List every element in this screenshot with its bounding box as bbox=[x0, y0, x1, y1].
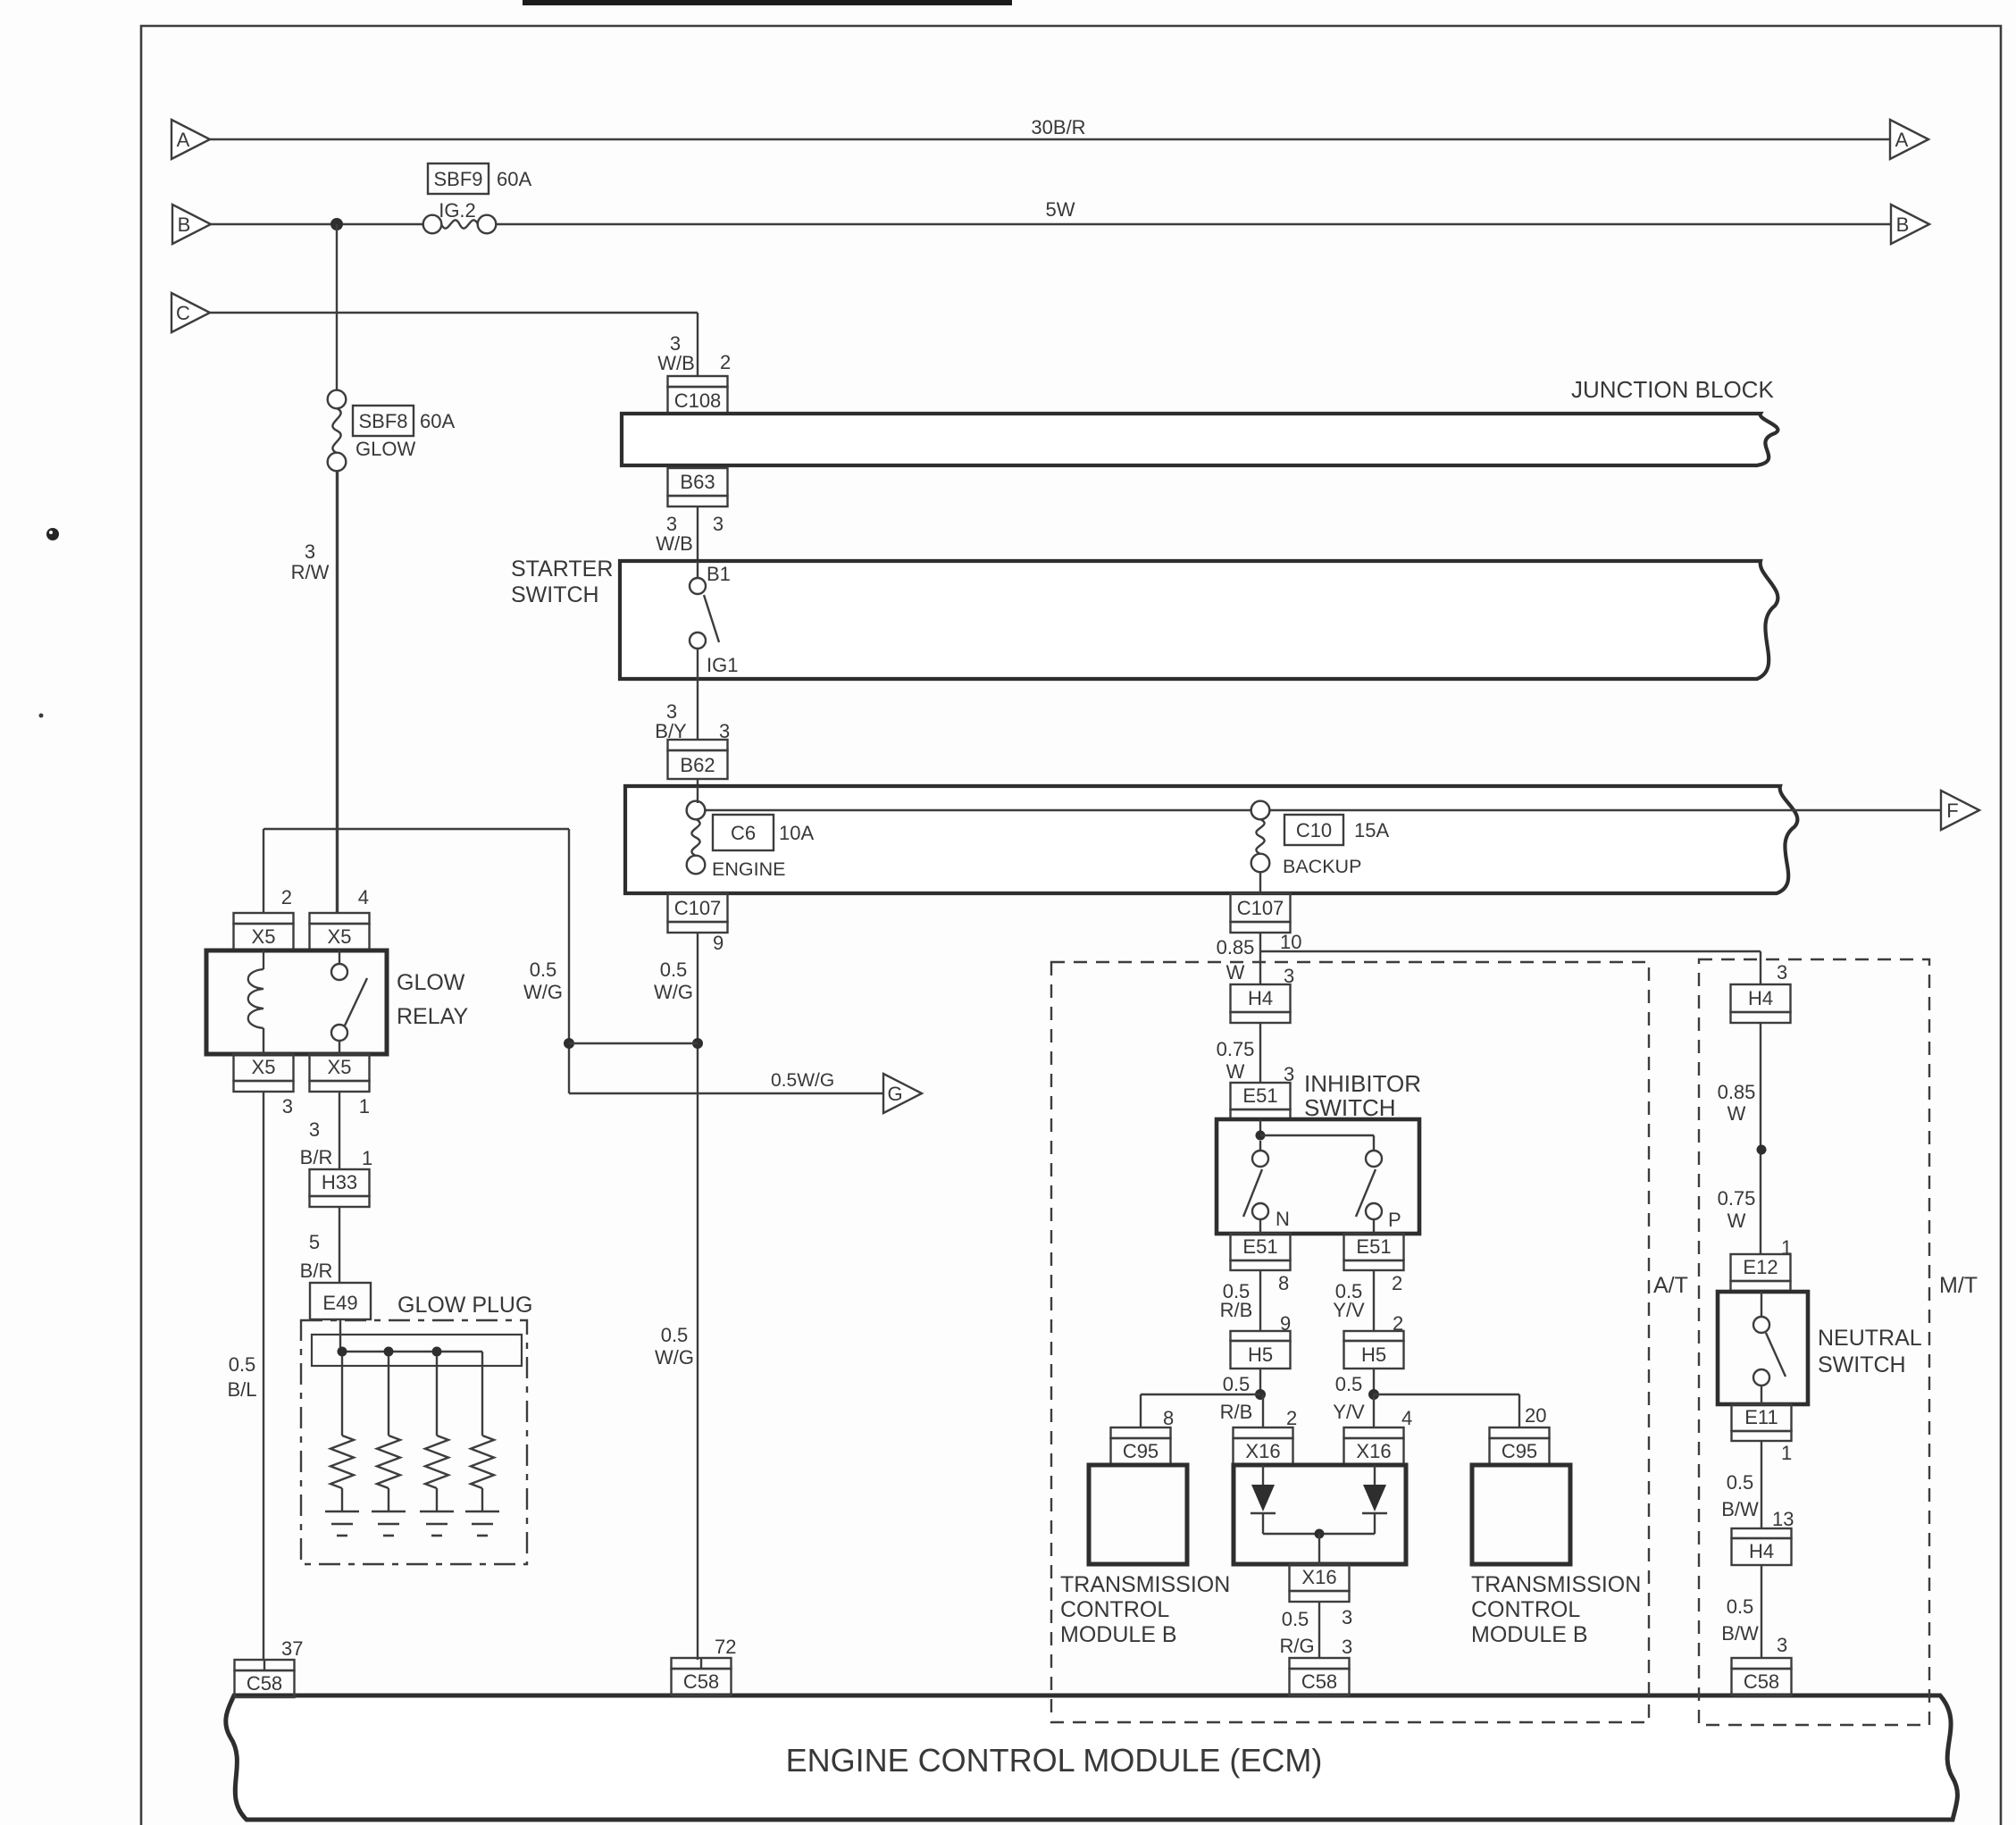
svg-text:TRANSMISSION: TRANSMISSION bbox=[1471, 1572, 1641, 1597]
svg-text:H33: H33 bbox=[322, 1171, 357, 1193]
svg-text:C6: C6 bbox=[731, 822, 756, 844]
svg-text:C: C bbox=[176, 302, 190, 324]
svg-text:E12: E12 bbox=[1743, 1256, 1778, 1278]
svg-text:A: A bbox=[177, 129, 190, 151]
svg-text:3: 3 bbox=[1342, 1636, 1352, 1658]
svg-text:B1: B1 bbox=[707, 563, 731, 585]
svg-text:ENGINE: ENGINE bbox=[712, 858, 785, 880]
svg-text:4: 4 bbox=[1401, 1407, 1412, 1429]
svg-text:5: 5 bbox=[309, 1231, 320, 1253]
svg-text:3: 3 bbox=[1342, 1606, 1352, 1628]
svg-text:W: W bbox=[1226, 1060, 1245, 1083]
svg-text:5W: 5W bbox=[1046, 198, 1075, 221]
svg-text:M/T: M/T bbox=[1939, 1273, 1978, 1298]
svg-text:60A: 60A bbox=[420, 410, 455, 432]
svg-text:X16: X16 bbox=[1356, 1440, 1391, 1462]
svg-text:13: 13 bbox=[1772, 1508, 1794, 1530]
svg-text:IG1: IG1 bbox=[707, 654, 738, 676]
svg-text:3: 3 bbox=[713, 513, 724, 535]
svg-text:X5: X5 bbox=[252, 1056, 276, 1078]
svg-text:X16: X16 bbox=[1245, 1440, 1280, 1462]
svg-text:H4: H4 bbox=[1749, 1540, 1774, 1562]
svg-text:3: 3 bbox=[1777, 1634, 1787, 1656]
svg-text:E51: E51 bbox=[1242, 1235, 1277, 1258]
svg-text:H5: H5 bbox=[1248, 1344, 1273, 1366]
svg-text:SWITCH: SWITCH bbox=[1304, 1094, 1396, 1121]
svg-text:C95: C95 bbox=[1123, 1440, 1159, 1462]
svg-text:0.5: 0.5 bbox=[1223, 1373, 1251, 1395]
svg-text:1: 1 bbox=[362, 1147, 372, 1169]
svg-text:C108: C108 bbox=[674, 389, 722, 412]
svg-text:Y/V: Y/V bbox=[1333, 1401, 1365, 1423]
svg-text:E51: E51 bbox=[1356, 1235, 1391, 1258]
svg-text:W/G: W/G bbox=[655, 1346, 694, 1369]
svg-text:R/W: R/W bbox=[291, 561, 330, 583]
svg-text:SWITCH: SWITCH bbox=[1818, 1352, 1906, 1377]
svg-text:P: P bbox=[1388, 1209, 1401, 1231]
svg-text:0.5: 0.5 bbox=[660, 959, 688, 981]
svg-text:SBF9: SBF9 bbox=[433, 168, 482, 190]
svg-text:X5: X5 bbox=[252, 925, 276, 948]
svg-text:B/R: B/R bbox=[300, 1146, 333, 1168]
svg-text:X5: X5 bbox=[328, 925, 352, 948]
svg-text:1: 1 bbox=[359, 1095, 370, 1118]
svg-text:STARTER: STARTER bbox=[511, 557, 613, 582]
svg-text:B: B bbox=[1896, 213, 1910, 236]
svg-text:B/R: B/R bbox=[300, 1260, 333, 1282]
svg-text:ENGINE CONTROL MODULE (ECM): ENGINE CONTROL MODULE (ECM) bbox=[786, 1742, 1323, 1779]
svg-text:3: 3 bbox=[282, 1095, 293, 1118]
svg-text:0.5: 0.5 bbox=[1727, 1471, 1754, 1494]
svg-text:3: 3 bbox=[305, 540, 315, 563]
svg-text:0.5W/G: 0.5W/G bbox=[771, 1070, 834, 1091]
svg-text:0.5: 0.5 bbox=[530, 959, 557, 981]
svg-text:B63: B63 bbox=[680, 471, 715, 493]
svg-text:JUNCTION BLOCK: JUNCTION BLOCK bbox=[1571, 376, 1774, 403]
svg-text:MODULE B: MODULE B bbox=[1471, 1622, 1588, 1647]
svg-text:E11: E11 bbox=[1744, 1406, 1778, 1428]
svg-text:W/B: W/B bbox=[657, 352, 695, 374]
svg-text:MODULE B: MODULE B bbox=[1060, 1622, 1177, 1647]
svg-text:0.5: 0.5 bbox=[1335, 1373, 1363, 1395]
svg-text:W/B: W/B bbox=[656, 532, 693, 555]
svg-text:C58: C58 bbox=[1301, 1670, 1337, 1693]
svg-text:G: G bbox=[887, 1083, 902, 1105]
svg-text:RELAY: RELAY bbox=[397, 1004, 468, 1029]
svg-text:NEUTRAL: NEUTRAL bbox=[1818, 1326, 1922, 1351]
svg-text:B62: B62 bbox=[680, 754, 715, 776]
svg-text:A/T: A/T bbox=[1653, 1273, 1688, 1298]
svg-text:37: 37 bbox=[281, 1637, 303, 1660]
svg-text:0.5: 0.5 bbox=[229, 1353, 256, 1376]
svg-text:Y/V: Y/V bbox=[1333, 1299, 1365, 1321]
svg-text:9: 9 bbox=[713, 932, 724, 954]
svg-text:C58: C58 bbox=[1744, 1670, 1779, 1693]
svg-text:W: W bbox=[1727, 1210, 1746, 1232]
svg-text:B/W: B/W bbox=[1721, 1498, 1759, 1520]
svg-text:3: 3 bbox=[1777, 961, 1787, 984]
svg-text:X5: X5 bbox=[328, 1056, 352, 1078]
svg-text:2: 2 bbox=[1392, 1272, 1402, 1294]
svg-text:N: N bbox=[1276, 1208, 1290, 1230]
svg-text:0.75: 0.75 bbox=[1217, 1038, 1255, 1060]
svg-text:30B/R: 30B/R bbox=[1031, 116, 1085, 138]
svg-text:C107: C107 bbox=[1237, 897, 1284, 919]
svg-text:CONTROL: CONTROL bbox=[1471, 1597, 1580, 1622]
svg-text:2: 2 bbox=[1286, 1407, 1297, 1429]
svg-text:E51: E51 bbox=[1242, 1084, 1277, 1107]
svg-text:A: A bbox=[1895, 129, 1909, 151]
svg-text:B/W: B/W bbox=[1721, 1622, 1759, 1645]
svg-text:R/B: R/B bbox=[1220, 1401, 1253, 1423]
svg-text:C107: C107 bbox=[674, 897, 722, 919]
svg-text:H5: H5 bbox=[1361, 1344, 1386, 1366]
svg-text:W: W bbox=[1226, 961, 1245, 984]
svg-text:10A: 10A bbox=[779, 822, 814, 844]
svg-text:H4: H4 bbox=[1248, 987, 1273, 1009]
svg-text:SBF8: SBF8 bbox=[358, 410, 407, 432]
svg-text:8: 8 bbox=[1278, 1272, 1289, 1294]
svg-text:3: 3 bbox=[309, 1118, 320, 1141]
svg-text:0.85: 0.85 bbox=[1718, 1081, 1756, 1103]
svg-text:E49: E49 bbox=[322, 1292, 357, 1314]
svg-text:2: 2 bbox=[720, 351, 731, 373]
svg-text:4: 4 bbox=[358, 886, 369, 908]
svg-text:TRANSMISSION: TRANSMISSION bbox=[1060, 1572, 1230, 1597]
svg-text:C58: C58 bbox=[683, 1670, 719, 1693]
svg-text:C58: C58 bbox=[247, 1672, 282, 1695]
svg-text:0.5: 0.5 bbox=[1727, 1595, 1754, 1618]
svg-text:B: B bbox=[178, 213, 191, 236]
svg-text:1: 1 bbox=[1781, 1442, 1792, 1464]
svg-text:15A: 15A bbox=[1354, 819, 1389, 841]
svg-text:SWITCH: SWITCH bbox=[511, 582, 599, 607]
svg-text:CONTROL: CONTROL bbox=[1060, 1597, 1169, 1622]
svg-text:INHIBITOR: INHIBITOR bbox=[1304, 1070, 1421, 1097]
svg-text:0.5: 0.5 bbox=[661, 1324, 689, 1346]
svg-text:W/G: W/G bbox=[523, 981, 563, 1003]
svg-text:0.75: 0.75 bbox=[1718, 1187, 1756, 1210]
svg-text:2: 2 bbox=[281, 886, 292, 908]
svg-text:10: 10 bbox=[1280, 931, 1301, 953]
svg-text:20: 20 bbox=[1525, 1404, 1546, 1427]
svg-text:8: 8 bbox=[1163, 1407, 1174, 1429]
svg-text:W: W bbox=[1727, 1102, 1746, 1125]
svg-text:0.85: 0.85 bbox=[1217, 936, 1255, 959]
svg-text:GLOW PLUG: GLOW PLUG bbox=[397, 1293, 532, 1318]
svg-text:X16: X16 bbox=[1301, 1566, 1336, 1588]
svg-text:F: F bbox=[1946, 799, 1958, 822]
svg-text:IG.2: IG.2 bbox=[439, 199, 476, 222]
svg-text:GLOW: GLOW bbox=[356, 438, 415, 460]
svg-text:W/G: W/G bbox=[654, 981, 693, 1003]
svg-text:0.5: 0.5 bbox=[1282, 1608, 1309, 1630]
svg-text:H4: H4 bbox=[1748, 987, 1773, 1009]
svg-text:60A: 60A bbox=[497, 168, 531, 190]
svg-text:R/G: R/G bbox=[1279, 1635, 1314, 1657]
svg-text:BACKUP: BACKUP bbox=[1283, 856, 1361, 877]
svg-text:C95: C95 bbox=[1502, 1440, 1537, 1462]
svg-text:R/B: R/B bbox=[1220, 1299, 1253, 1321]
svg-text:72: 72 bbox=[715, 1636, 736, 1658]
svg-text:C10: C10 bbox=[1296, 819, 1332, 841]
svg-text:B/L: B/L bbox=[227, 1378, 256, 1401]
svg-text:GLOW: GLOW bbox=[397, 970, 465, 995]
